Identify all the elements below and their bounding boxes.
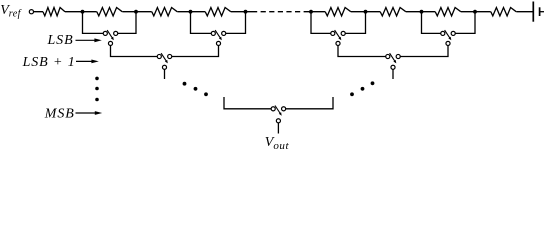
switch T2 (LSB+1 row) [386, 53, 401, 69]
svg-text:Vref: Vref [0, 3, 21, 19]
wire: S1/S2 poles down to LSB+1 switch T1 [111, 46, 219, 57]
junction node tap 7 [420, 10, 424, 14]
wire: taps 7/8 down to LSB switch S4 [422, 12, 476, 34]
junction node tap 8 [473, 10, 477, 14]
wire: T2 pole output down [392, 70, 394, 80]
LSB+1 control arrow [76, 60, 99, 64]
resistor R7 [435, 8, 461, 16]
resistor R6 [380, 8, 406, 16]
resistor R1 [43, 8, 65, 16]
wire: top ladder rail segments [34, 11, 534, 13]
resistor R5 [325, 8, 351, 16]
continuation dots (right diagonal ellipsis) [350, 81, 374, 96]
resistor R2 [97, 8, 122, 16]
termination plate (short bar) [539, 7, 541, 16]
resistor R4 [205, 8, 231, 16]
switch S4 (LSB row) [441, 30, 456, 45]
svg-text:LSB: LSB [47, 33, 74, 48]
Vref input terminal [29, 10, 33, 14]
wire: dashed continuation in ladder [252, 11, 308, 13]
wire: MSB pole to Vout [277, 123, 279, 134]
wire: S3/S4 poles down to LSB+1 switch T2 [338, 46, 448, 57]
junction node tap 3 [189, 10, 193, 14]
wire: taps 3/4 down to LSB switch S2 [191, 12, 246, 34]
termination plate (long bar) [532, 2, 534, 22]
switch S1 (LSB row) [103, 30, 117, 45]
svg-text:Vout: Vout [265, 135, 290, 149]
MSB control arrow [76, 111, 103, 115]
junction node tap 2 [134, 10, 138, 14]
wire: taps 1/2 down to LSB switch S1 [83, 12, 137, 34]
svg-text:MSB: MSB [44, 107, 75, 122]
switch U1 (MSB row) [271, 106, 286, 123]
svg-text:LSB + 1: LSB + 1 [22, 55, 76, 70]
wire: T1 pole output down [164, 70, 166, 80]
LSB control arrow [76, 38, 102, 42]
switch T1 (LSB+1 row) [157, 53, 172, 69]
wire: stub off right edge [540, 11, 544, 13]
junction node tap 1 [81, 10, 85, 14]
junction node tap 4 [244, 10, 248, 14]
wire: taps 5/6 down to LSB switch S3 [311, 12, 366, 34]
switch S3 (LSB row) [331, 30, 346, 45]
junction node tap 6 [364, 10, 368, 14]
resistor R3 [152, 8, 177, 16]
continuation dots (left diagonal ellipsis) [183, 82, 208, 96]
switch S2 (LSB row) [211, 30, 226, 45]
vertical ellipsis between control rows [95, 77, 99, 102]
wire: bracket into MSB switch [224, 97, 333, 109]
resistor R8 [491, 8, 516, 16]
junction node tap 5 [309, 10, 313, 14]
